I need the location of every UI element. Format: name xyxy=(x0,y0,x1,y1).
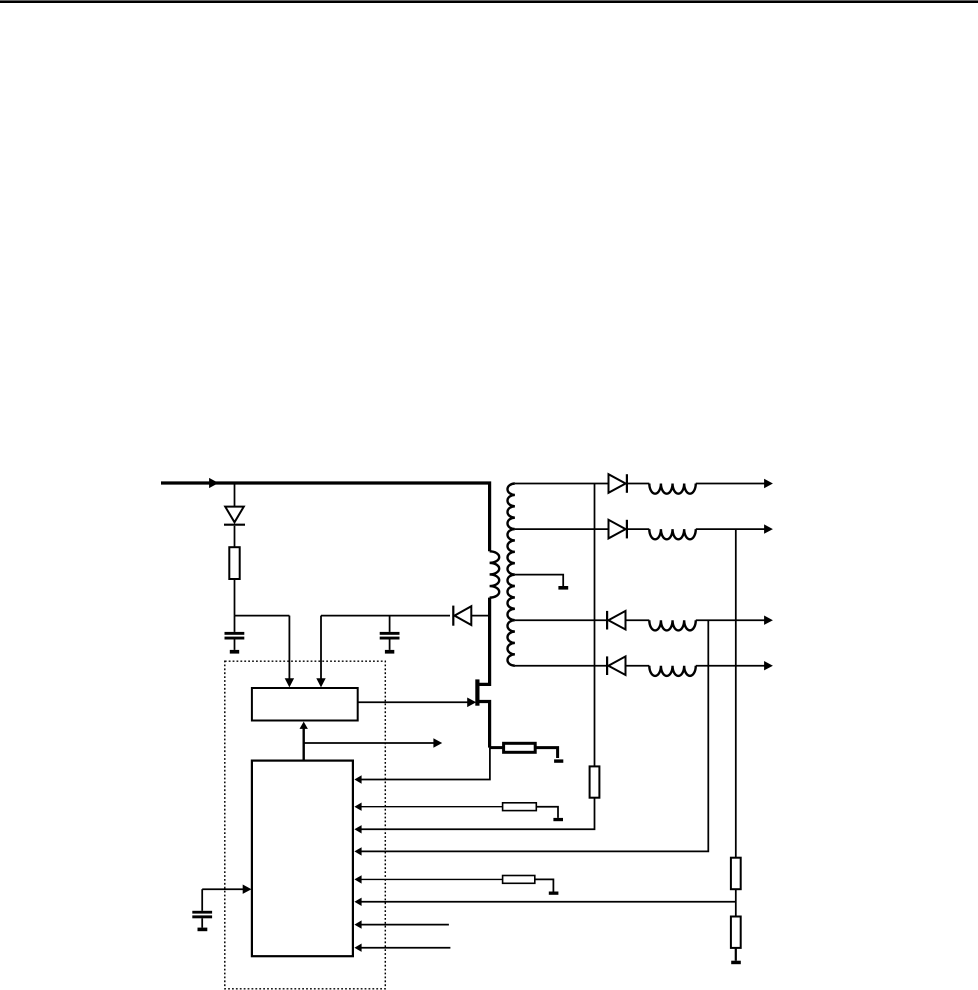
controller boundary (dotted) xyxy=(225,661,385,989)
arrowhead into U1 bottom xyxy=(300,722,308,729)
wire: divider tap to block row 6 xyxy=(361,901,736,903)
wire: primary to drain (thick) xyxy=(478,598,490,685)
arrowhead output 1 xyxy=(764,479,773,488)
arrowhead into small block (aux) xyxy=(316,678,325,687)
wire: D2 to drain xyxy=(471,615,488,617)
capacitor C2 (aux) xyxy=(389,616,391,632)
arrowhead sync branch xyxy=(433,738,442,747)
wire: Vcc drop into control block xyxy=(288,616,290,679)
diode D2 (clamp, pointing left) xyxy=(452,606,454,626)
wire: D3 to L1 xyxy=(627,483,649,485)
wire: output 4 xyxy=(696,665,765,667)
wire: R2 to ground (thick) xyxy=(536,748,558,758)
arrowhead into main block row 8 xyxy=(354,944,361,952)
wire: output 3 xyxy=(696,619,765,621)
wire: R6 to ground xyxy=(536,807,558,818)
resistor R5 (divider bottom) xyxy=(731,917,741,948)
MOSFET Q1 channel bar xyxy=(475,679,479,705)
wire: secondary center tap xyxy=(515,575,563,586)
wire: gate drive from control block xyxy=(358,701,468,703)
wire: output 1 xyxy=(696,483,765,485)
wire: D4 to L2 xyxy=(627,528,649,530)
wire: R1 to Vcc node xyxy=(234,579,236,616)
resistor R4 (divider top) xyxy=(731,858,741,890)
wire: block row 5 to R7 xyxy=(361,878,503,880)
wire: U2 to U1 (up) xyxy=(303,728,305,761)
wire: D5 to L3 xyxy=(626,619,650,621)
wire: block row 2 to R6 xyxy=(361,806,503,808)
arrowhead into main block row 5 xyxy=(354,875,361,883)
block U1 driver (small rect) xyxy=(252,688,358,721)
wire: R5 to ground xyxy=(735,948,737,961)
wire: block row 7 input xyxy=(361,924,449,926)
transformer T1 primary winding xyxy=(490,551,500,597)
resistor R6 xyxy=(503,803,537,811)
ground (R5) xyxy=(731,961,741,965)
resistor R2 current sense (thick) xyxy=(504,743,536,752)
wire: divider mid node xyxy=(735,889,737,916)
arrowhead at Q1 gate xyxy=(467,698,476,708)
wire: secondary tap 5 xyxy=(515,665,606,667)
arrowhead into main block row 1 xyxy=(354,775,361,783)
resistor R1 (startup) xyxy=(229,547,239,579)
arrowhead into U2 left xyxy=(243,885,252,894)
diode D6 (output 4, pointing left) xyxy=(606,656,608,675)
wire: sense line from tap 1 down xyxy=(594,484,596,767)
transformer T1 secondary winding xyxy=(507,484,514,666)
arrowhead output 3 xyxy=(764,616,773,625)
diode D5 (output 3, pointing left) xyxy=(606,611,608,630)
header rule xyxy=(0,0,978,3)
block U2 controller (large rect) xyxy=(252,761,353,957)
inductor L4 xyxy=(649,666,695,676)
ground (C2) xyxy=(385,650,394,654)
wire: aux rail right segment xyxy=(321,615,450,617)
wire: current sense feedback down xyxy=(361,748,490,780)
wire: source to sense resistor (thick) xyxy=(490,746,503,749)
wire: D1 to R1 xyxy=(234,526,236,547)
wire: block row 8 input xyxy=(361,947,450,949)
inductor L3 xyxy=(649,620,695,630)
MOSFET Q1 source stub (thick) xyxy=(478,702,490,748)
wire: secondary tap 1 xyxy=(515,483,609,485)
arrowhead output 4 xyxy=(764,661,773,670)
wire: left input to U2 xyxy=(202,888,245,890)
wire: aux drop into control block xyxy=(320,616,322,679)
arrowhead into main block row 6 xyxy=(354,898,361,906)
wire: Vcc rail left segment xyxy=(235,615,290,617)
capacitor C1 (Vcc) xyxy=(234,616,236,632)
diode D1 (startup, pointing down) xyxy=(225,507,244,523)
inductor L1 xyxy=(649,484,695,494)
arrowhead into main block row 3 xyxy=(354,825,361,833)
ground (R7) xyxy=(549,892,559,895)
ground (C1) xyxy=(230,650,239,654)
diode D3 (output 1, pointing right) xyxy=(609,474,626,493)
ground (R2) xyxy=(554,759,563,762)
wire: output 2 feedback down xyxy=(735,529,737,858)
inductor L2 xyxy=(649,529,695,539)
diode D4 (output 2, pointing right) xyxy=(609,520,626,539)
arrowhead into main block row 2 xyxy=(354,803,361,811)
wire: output 3 feedback down xyxy=(361,620,708,851)
resistor R7 xyxy=(503,876,535,884)
capacitor C3 (soft start) xyxy=(201,889,203,911)
arrowhead into small block (Vcc) xyxy=(285,678,294,687)
arrowhead into main block row 4 xyxy=(354,847,361,855)
ground (center tap) xyxy=(558,586,568,590)
arrowhead output 2 xyxy=(764,524,773,533)
arrowhead on input bus xyxy=(209,478,218,488)
wire: DC input bus (thick) xyxy=(161,483,490,551)
wire: input to D1 xyxy=(234,485,236,507)
resistor R3 xyxy=(590,766,600,797)
wire: D6 to L4 xyxy=(626,665,650,667)
wire: output 2 xyxy=(696,528,765,530)
wire: secondary tap 4 xyxy=(515,619,606,621)
wire: sync branch with arrow xyxy=(304,742,434,744)
ground (C3) xyxy=(198,928,208,932)
arrowhead into main block row 7 xyxy=(354,920,361,928)
wire: secondary tap 2 xyxy=(515,528,609,530)
wire: R7 to ground xyxy=(535,879,554,891)
ground (R6) xyxy=(553,818,563,821)
wire: R3 to block row 3 xyxy=(361,798,595,830)
